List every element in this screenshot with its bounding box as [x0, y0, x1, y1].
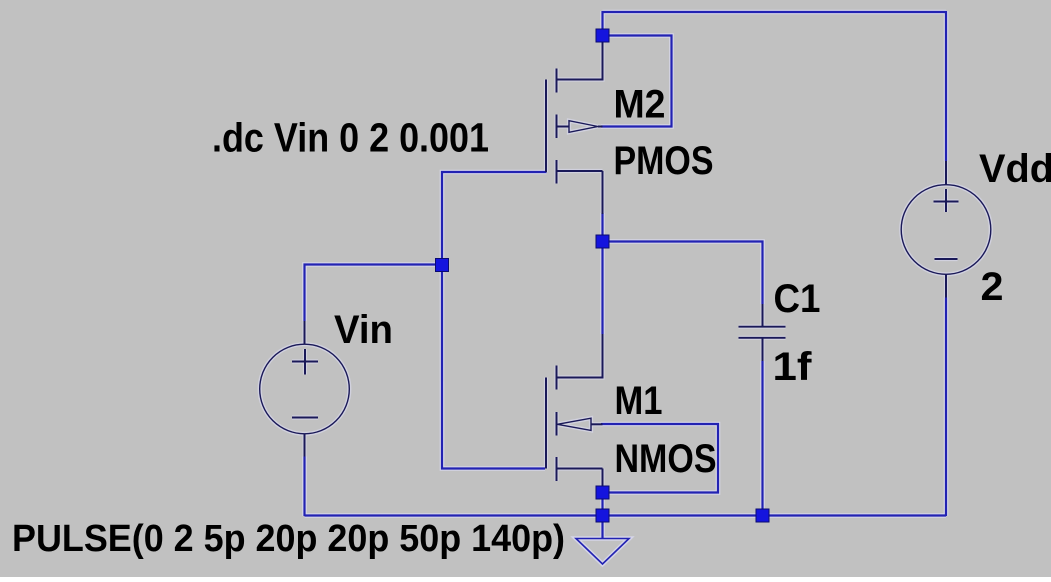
svg-text:M1: M1: [615, 379, 663, 423]
svg-text:2: 2: [981, 265, 1004, 309]
svg-text:.dc Vin 0 2 0.001: .dc Vin 0 2 0.001: [212, 115, 489, 161]
svg-text:C1: C1: [774, 277, 821, 321]
svg-text:Vdd: Vdd: [979, 147, 1051, 191]
svg-text:1f: 1f: [773, 345, 813, 389]
svg-text:PULSE(0 2 5p 20p 20p 50p 140p): PULSE(0 2 5p 20p 20p 50p 140p): [12, 517, 565, 560]
svg-text:Vin: Vin: [334, 308, 393, 352]
svg-text:NMOS: NMOS: [615, 437, 717, 481]
svg-text:PMOS: PMOS: [614, 139, 714, 183]
svg-text:M2: M2: [614, 83, 666, 127]
